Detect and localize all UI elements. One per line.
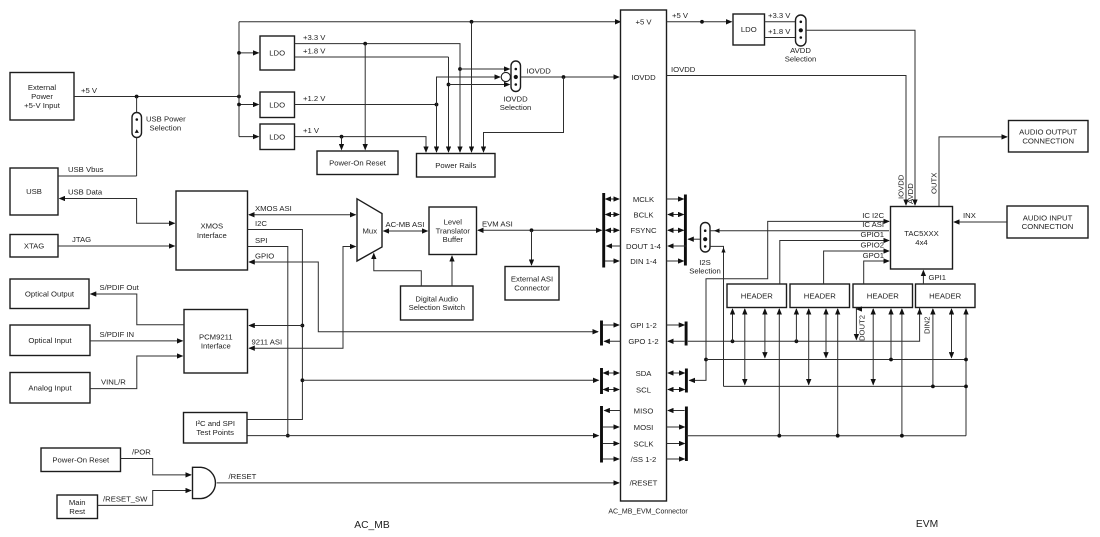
junction I2C / SDA bus branch [301, 378, 305, 382]
wire /RESET_SW [98, 491, 192, 506]
block Power-On Reset [317, 151, 398, 175]
wire MISO left [604, 410, 620, 412]
svg-text:Mux: Mux [363, 226, 378, 235]
connector AC_MB_EVM_Connector [621, 10, 667, 501]
wire /SS 1-2 left [603, 458, 619, 460]
wire GPIO [249, 262, 598, 332]
svg-text:I2C: I2C [255, 219, 267, 228]
block I2C and SPI Test Points [184, 413, 248, 444]
junction LDO2 input [237, 103, 241, 107]
wire +1.8V to IOVDD selection pin3 [449, 84, 510, 86]
svg-text:OUTX: OUTX [930, 173, 939, 194]
svg-text:AC_MB_EVM_Connector: AC_MB_EVM_Connector [608, 509, 688, 516]
block USB [10, 168, 58, 215]
bus GPI-GPO right [685, 322, 688, 346]
junction rail A / H1 pin1 [731, 339, 735, 343]
svg-text:DOUT2: DOUT2 [858, 315, 867, 341]
svg-text:USB: USB [26, 187, 42, 196]
svg-text:CONNECTION: CONNECTION [1022, 136, 1074, 145]
svg-text:MOSI: MOSI [634, 423, 654, 432]
svg-text:GPO 1-2: GPO 1-2 [628, 337, 658, 346]
wire SCL left [603, 389, 619, 391]
svg-text:HEADER: HEADER [804, 291, 836, 300]
svg-text:Connector: Connector [514, 283, 550, 292]
wire I2C [248, 230, 303, 420]
svg-text:+5 V: +5 V [635, 18, 652, 27]
svg-text:Level: Level [444, 218, 463, 227]
wire DASS to Mux select [374, 254, 422, 287]
wire H3 pin4 [901, 309, 903, 436]
svg-text:IOVDD: IOVDD [631, 73, 656, 82]
wire LDO3 input [239, 136, 259, 138]
svg-text:AVDD: AVDD [906, 183, 915, 204]
bus MCLK-DIN left [602, 193, 605, 268]
wire drop to External ASI Connector [531, 230, 533, 265]
svg-text:Power Rails: Power Rails [435, 161, 476, 170]
svg-text:9211 ASI: 9211 ASI [252, 338, 283, 347]
block Main Rest [57, 495, 98, 519]
svg-text:SDA: SDA [636, 369, 653, 378]
wire AVDD to TAC5XXX [806, 30, 915, 205]
wire +1.8V [295, 56, 449, 58]
svg-text:IOVDD: IOVDD [897, 174, 906, 199]
svg-text:+5 V: +5 V [672, 11, 689, 20]
svg-text:HEADER: HEADER [929, 291, 961, 300]
svg-text:MCLK: MCLK [633, 195, 655, 204]
svg-text:+3.3 V: +3.3 V [768, 11, 791, 20]
svg-text:GPO1: GPO1 [863, 251, 884, 260]
wire +5V to right LDO [667, 21, 732, 23]
svg-text:Interface: Interface [201, 341, 231, 350]
svg-text:USB Power: USB Power [146, 114, 186, 123]
svg-text:4x4: 4x4 [915, 238, 928, 247]
svg-text:External: External [28, 83, 56, 92]
wire USB Vbus [58, 175, 137, 177]
junction +5V / LDO column [237, 95, 241, 99]
block XMOS Interface [176, 191, 248, 270]
wire OUTX [939, 137, 1007, 207]
regulator LDO4 (AVDD) [733, 14, 765, 45]
svg-text:VINL/R: VINL/R [101, 378, 126, 387]
block Optical Output [10, 279, 89, 309]
wire XMOS ASI [249, 214, 356, 216]
wire +5V drop to Power Rails [471, 22, 473, 152]
wire SPI test point line to SPI bus [247, 435, 599, 437]
wire bus to I2S selection [688, 238, 700, 240]
arrow I2S rail up [721, 247, 725, 252]
svg-text:/POR: /POR [132, 448, 151, 457]
svg-text:XMOS: XMOS [200, 222, 223, 231]
wire GPI 1-2 right [667, 324, 685, 326]
svg-text:SCL: SCL [636, 385, 652, 394]
junction +5V rail / power rails drop [470, 20, 474, 24]
svg-text:Optical Input: Optical Input [28, 336, 72, 345]
wire H1 pin1 [732, 309, 734, 341]
junction H3 pin4 / rail D [900, 434, 904, 438]
wire BCLK right [668, 214, 684, 216]
block Power-On Reset (switch) [41, 448, 121, 472]
svg-text:Selection: Selection [689, 267, 721, 276]
arrow IC ASI [714, 228, 720, 233]
junction +3.3V / IOVDD top pin [458, 67, 462, 71]
svg-text:EVM: EVM [916, 519, 938, 530]
wire IOVDD mid feed [437, 77, 501, 152]
wire GPO 1-2 left [604, 340, 620, 342]
svg-text:SCLK: SCLK [633, 439, 654, 448]
wire H4 pin3 [951, 309, 953, 358]
block PCM9211 Interface [184, 310, 248, 374]
svg-text:DIN2: DIN2 [923, 316, 932, 334]
wire GPO1 [864, 261, 889, 284]
wire +3.3V to IOVDD selection pin1 [460, 68, 510, 70]
block External ASI Connector [505, 267, 559, 301]
rail GPO/rail A [688, 308, 920, 342]
wire SDA left [603, 372, 619, 374]
wire +3.3V drop to Power-On Reset [364, 44, 366, 150]
junction EVM ASI / external connector [530, 228, 534, 232]
svg-text:IOVDD: IOVDD [527, 67, 552, 76]
wire SPI [248, 247, 288, 436]
svg-text:S/PDIF Out: S/PDIF Out [100, 283, 140, 292]
wire USB power jumper bottom / Vbus vertical [136, 138, 138, 177]
svg-text:LDO: LDO [741, 25, 757, 34]
junction +5V right [700, 20, 704, 24]
svg-text:AUDIO INPUT: AUDIO INPUT [1023, 213, 1073, 222]
wire /SS 1-2 right [667, 458, 685, 460]
wire +3.3V [295, 44, 461, 152]
wire H2 pin4 [837, 309, 839, 436]
wire H2 pin1 [795, 309, 797, 341]
wire DOUT 1-4 left [607, 245, 621, 247]
circle IOVDD selection common [501, 72, 510, 81]
wire IOVDD mid drop arrow [436, 140, 438, 152]
svg-text:GPI 1-2: GPI 1-2 [630, 321, 657, 330]
svg-text:LDO: LDO [269, 49, 285, 58]
junction +1.2V / IOVDD mid [435, 103, 439, 107]
connector HEADER 1 [727, 284, 787, 308]
svg-text:IOVDD: IOVDD [671, 65, 696, 74]
svg-text:GPIO2: GPIO2 [861, 241, 885, 250]
svg-text:+1.2 V: +1.2 V [303, 94, 326, 103]
svg-text:Test Points: Test Points [196, 428, 234, 437]
svg-text:GPIO: GPIO [255, 251, 274, 260]
svg-text:Selection: Selection [150, 124, 182, 133]
wire S/PDIF Out [91, 294, 184, 325]
wire +3.3V drop to Power Rails [459, 44, 461, 152]
svg-text:AUDIO OUTPUT: AUDIO OUTPUT [1019, 128, 1077, 137]
svg-text:DOUT 1-4: DOUT 1-4 [626, 242, 662, 251]
svg-text:LDO: LDO [269, 101, 285, 110]
svg-text:/RESET_SW: /RESET_SW [103, 495, 148, 504]
junction H2 pin4 / rail D [836, 434, 840, 438]
svg-text:Power: Power [31, 92, 53, 101]
wire I2C branch to SDA-SCL bus [302, 379, 598, 381]
junction DIN2 / rail C [931, 385, 935, 389]
wire S/PDIF IN [90, 340, 183, 342]
wire +1.8V right [765, 37, 796, 39]
bus GPI-GPO left [600, 321, 603, 346]
bus SDA-SCL left [600, 368, 603, 394]
wire LDO feed vertical [238, 22, 240, 137]
wire GPO 1-2 right [668, 340, 685, 342]
wire AC-MB ASI [384, 230, 428, 232]
svg-text:Rest: Rest [69, 507, 86, 516]
junction IOVDD / power rails branch [562, 75, 566, 79]
wire JTAG [58, 245, 175, 247]
wire +1V drop to Power-On Reset [341, 137, 343, 150]
regulator LDO1 (+3.3/+1.8) [260, 36, 295, 70]
junction +3.3V / POR drop [363, 42, 367, 46]
wire H2 pin2 [808, 309, 810, 385]
wire /RESET [217, 482, 619, 484]
block External Power +5-V Input [10, 73, 74, 121]
svg-text:+3.3 V: +3.3 V [303, 33, 326, 42]
svg-text:INX: INX [963, 211, 976, 220]
bus SDA-SCL right [685, 369, 688, 393]
wire MOSI left [603, 426, 619, 428]
wire MISO right [668, 410, 685, 412]
svg-text:/RESET: /RESET [229, 472, 257, 481]
jumper I2S Selection [701, 223, 711, 253]
svg-text:Selection: Selection [500, 103, 532, 112]
rail B SDA [706, 359, 966, 361]
wire VINL/R [90, 356, 183, 389]
wire DIN 1-4 right [667, 260, 684, 262]
wire I2S bottom to DIN rail [710, 246, 724, 386]
wire EVM ASI [478, 229, 602, 231]
wire H4 pin4 [965, 309, 967, 436]
wire MCLK left [606, 198, 620, 200]
svg-text:AC_MB: AC_MB [354, 520, 390, 531]
svg-text:External ASI: External ASI [511, 275, 553, 284]
wire DASS to Buffer select [451, 256, 453, 286]
bus MCLK-DIN right [684, 195, 687, 266]
wire GPIO2 [824, 251, 889, 284]
svg-text:+1 V: +1 V [303, 126, 320, 135]
block Level Translator Buffer [429, 207, 477, 255]
junction H4 pin4 / rail B [964, 358, 968, 362]
svg-text:JTAG: JTAG [72, 235, 91, 244]
junction +1.8V / IOVDD bottom pin [447, 83, 451, 87]
svg-text:PCM9211: PCM9211 [199, 333, 233, 342]
svg-text:Analog Input: Analog Input [28, 383, 72, 392]
wire IOVDD to TAC5XXX [667, 76, 907, 206]
wire GPI1 [922, 271, 924, 285]
svg-text:BCLK: BCLK [633, 210, 654, 219]
svg-text:DIN 1-4: DIN 1-4 [630, 257, 657, 266]
wire LDO2 input [239, 104, 259, 106]
wire +1.2V [295, 104, 437, 106]
svg-text:EVM ASI: EVM ASI [482, 220, 513, 229]
wire H2 pin3 [825, 309, 827, 358]
wire top +5V rail to connector [239, 21, 621, 23]
wire USB Data [60, 199, 175, 224]
regulator LDO3 (+1) [260, 124, 295, 150]
wire IOVDD branch to Power Rails [484, 77, 564, 152]
wire LDO1 input [239, 52, 259, 54]
bus MISO-SS right [685, 407, 688, 462]
wire +1.8V drop to Power Rails [448, 57, 450, 152]
svg-text:Optical Output: Optical Output [25, 289, 75, 298]
jumper IOVDD Selection [511, 61, 521, 92]
svg-text:IC I2C: IC I2C [862, 211, 884, 220]
svg-text:SPI: SPI [255, 236, 267, 245]
block AUDIO OUTPUT CONNECTION [1009, 121, 1089, 153]
connector HEADER 3 [853, 284, 913, 308]
svg-text:GPI1: GPI1 [929, 273, 947, 282]
rail C SCL [724, 385, 967, 387]
regulator LDO2 (+1.2) [260, 92, 295, 118]
block Power Rails [417, 154, 496, 178]
wire USB power jumper top [136, 97, 138, 113]
wire H1 pin3 [764, 309, 766, 358]
wire FSYNC left [606, 229, 620, 231]
wire MOSI right [667, 426, 685, 428]
junction +5V / USB power [135, 95, 139, 99]
jumper AVDD Selection [796, 15, 807, 46]
block AUDIO INPUT CONNECTION [1007, 206, 1088, 238]
svg-text:MISO: MISO [634, 406, 654, 415]
block Digital Audio Selection Switch [401, 286, 474, 320]
wire INX [954, 221, 1007, 223]
svg-text:FSYNC: FSYNC [630, 226, 657, 235]
svg-text:HEADER: HEADER [867, 291, 899, 300]
ic TAC5XXX 4x4 [891, 207, 953, 270]
wire H4 pin1 [919, 309, 921, 310]
svg-text:USB Data: USB Data [68, 187, 103, 196]
svg-text:Power-On Reset: Power-On Reset [52, 455, 110, 464]
junction SPI / test points [286, 434, 290, 438]
gate AND reset gate [193, 467, 216, 498]
wire IC I2C [689, 221, 889, 380]
connector HEADER 4 [916, 284, 976, 308]
junction H3 pin3 / rail B [889, 358, 893, 362]
svg-text:Selection: Selection [785, 55, 817, 64]
svg-text:/RESET: /RESET [630, 479, 658, 488]
rail D SPI [686, 435, 966, 437]
svg-text:/SS 1-2: /SS 1-2 [631, 455, 657, 464]
svg-text:Power-On Reset: Power-On Reset [329, 158, 387, 167]
svg-text:+1.8 V: +1.8 V [303, 47, 326, 56]
svg-text:HEADER: HEADER [741, 291, 773, 300]
wire H1 pin2 [744, 309, 746, 385]
junction H4 pin4 / rail C [964, 385, 968, 389]
svg-text:Main: Main [69, 498, 86, 507]
svg-text:AC-MB ASI: AC-MB ASI [386, 220, 425, 229]
svg-text:TAC5XXX: TAC5XXX [904, 229, 938, 238]
wire SCLK left [603, 443, 619, 445]
block Analog Input [10, 373, 90, 404]
wire GPIO1 [780, 241, 889, 285]
wire I2C branch to PCM9211 [249, 325, 302, 327]
wire H3 pin2 [872, 309, 874, 385]
svg-text:Digital Audio: Digital Audio [415, 294, 458, 303]
wire H4 pin2 DIN2 [932, 309, 934, 386]
wire 9211 ASI [249, 247, 355, 349]
wire +1V [295, 137, 427, 152]
block XTAG [10, 235, 58, 258]
wire IC ASI [710, 230, 889, 232]
wire H1 pin4 [778, 309, 780, 436]
svg-text:Translator: Translator [436, 226, 471, 235]
block Optical Input [10, 325, 90, 356]
wire FSYNC right [668, 229, 684, 231]
svg-text:XTAG: XTAG [24, 241, 44, 250]
connector HEADER 2 [790, 284, 850, 308]
svg-text:USB Vbus: USB Vbus [68, 165, 104, 174]
svg-text:GPIO1: GPIO1 [861, 230, 885, 239]
junction I2C / PCM9211 branch [301, 324, 305, 328]
wire +5V from External Power [74, 96, 239, 98]
wire +3.3V right [765, 21, 796, 23]
wire H3 pin3 [890, 309, 892, 360]
wire BCLK left [606, 214, 620, 216]
wire IOVDD to connector [521, 76, 620, 78]
junction IC I2C / header rail B [704, 358, 708, 362]
wire SCLK right [667, 443, 685, 445]
wire /POR [121, 459, 192, 475]
wire H3 pin1 DOUT2 arrowed above [855, 308, 857, 310]
jumper USB Power Selection [132, 113, 142, 138]
wire SDA right [668, 372, 685, 374]
wire DOUT2 [855, 308, 857, 340]
wire MCLK right [667, 198, 684, 200]
svg-text:LDO: LDO [269, 132, 285, 141]
svg-text:CONNECTION: CONNECTION [1022, 222, 1074, 231]
svg-text:Selection Switch: Selection Switch [409, 303, 465, 312]
bus SPI left [600, 406, 603, 463]
junction rail A / H2 pin1 [795, 339, 799, 343]
wire DIN 1-4 left [605, 260, 619, 262]
svg-text:+1.8 V: +1.8 V [768, 27, 791, 36]
svg-text:XMOS ASI: XMOS ASI [255, 204, 292, 213]
svg-text:Interface: Interface [197, 231, 227, 240]
junction LDO1 input [237, 51, 241, 55]
svg-text:+5 V: +5 V [81, 86, 98, 95]
svg-text:S/PDIF IN: S/PDIF IN [100, 330, 135, 339]
svg-text:Buffer: Buffer [443, 235, 464, 244]
mux Mux [357, 199, 382, 261]
wire SCL right [668, 389, 685, 391]
junction H1 pin4 / rail D [777, 434, 781, 438]
svg-text:I²C and SPI: I²C and SPI [195, 419, 235, 428]
wire DOUT 1-4 right [668, 245, 687, 247]
wire GPI 1-2 left [603, 324, 619, 326]
svg-text:+5-V Input: +5-V Input [24, 101, 61, 110]
junction +1V / POR drop [340, 135, 344, 139]
